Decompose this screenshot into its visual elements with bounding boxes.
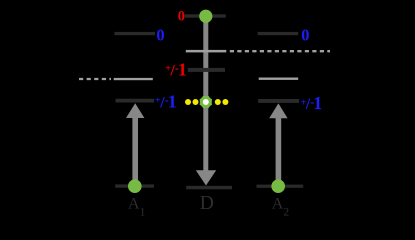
svg-text:1: 1	[178, 60, 187, 80]
arrowhead: left up-arrow head	[126, 103, 144, 118]
label: blue +/-1 (A1)	[155, 92, 177, 112]
node: photon dots right (yellow)	[215, 99, 221, 105]
svg-text:0: 0	[178, 8, 185, 24]
level: A1 ground level	[115, 184, 154, 187]
wire: left up-arrow shaft (A1 pump)	[132, 114, 138, 182]
wire: center down-arrow shaft (D emission)	[203, 19, 208, 171]
wire: dashed virtual line left of A1	[79, 78, 111, 80]
svg-text:1: 1	[168, 92, 177, 112]
level: A2 ground level	[257, 185, 304, 188]
arrowhead: right up-arrow head	[269, 103, 287, 118]
level: D virtual light level	[186, 50, 227, 53]
level: D +/-1 level	[188, 68, 225, 72]
node: D excited population (green dot)	[199, 10, 212, 23]
svg-text:1: 1	[313, 93, 322, 113]
svg-text:0: 0	[301, 25, 309, 44]
label: red +/-1 (D)	[165, 60, 187, 80]
wire: dashed virtual line right of D	[230, 50, 330, 52]
level: A2 virtual light level	[259, 78, 299, 80]
node: D intermediate state (green ring, white core)	[200, 96, 213, 109]
level: A2 top level 0	[258, 32, 299, 35]
level: A1 virtual light level	[114, 78, 153, 80]
node: A2 ground population (green dot)	[271, 179, 285, 193]
node: photon dots left (yellow)	[185, 99, 191, 105]
level: D ground level	[186, 186, 232, 190]
node: A1 ground population (green dot)	[128, 179, 142, 193]
level: A2 +/-1 level	[258, 99, 299, 103]
level: D top level 0	[185, 14, 226, 17]
svg-text:D: D	[200, 193, 214, 214]
arrowhead: center down-arrow head	[196, 170, 216, 185]
level: A1 top level 0	[115, 32, 156, 35]
level: A1 +/-1 level	[116, 99, 155, 103]
label: blue +/-1 (A2)	[301, 93, 323, 113]
svg-text:0: 0	[156, 25, 164, 44]
wire: right up-arrow shaft (A2 pump)	[276, 114, 282, 182]
